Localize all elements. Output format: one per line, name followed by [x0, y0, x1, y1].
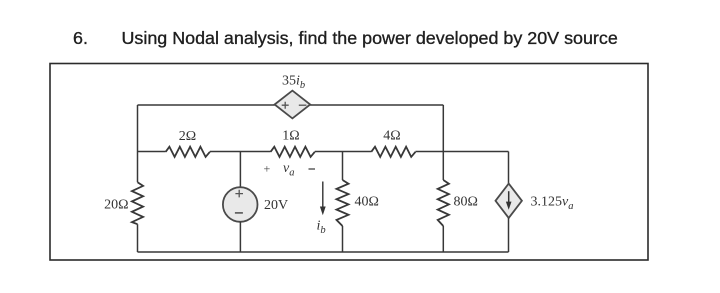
voltage source V1 20V circle: [223, 187, 258, 222]
wire 80ohm branch bottom: [442, 226, 444, 252]
wire 80ohm branch from top rail through mid rail: [442, 105, 444, 180]
wire top-left rail to dependent source U1: [138, 104, 275, 106]
minus sign of V1: [235, 212, 243, 214]
wire 40ohm branch bottom: [342, 226, 344, 252]
resistor R4 4ohm: [371, 147, 415, 157]
wire right branch bottom: [508, 218, 510, 252]
svg-text:2Ω: 2Ω: [179, 129, 196, 144]
wire dependent source U1 to right top corner: [310, 104, 443, 106]
dependent current source U2 (3.125va) diamond: [496, 184, 522, 218]
wire mid rail segment b: [210, 151, 271, 153]
plus sign of V1: [235, 190, 243, 198]
plus sign of U1: [282, 102, 289, 109]
svg-text:ib: ib: [317, 219, 326, 237]
wire right branch top: [508, 152, 510, 184]
wire left rail top segment: [137, 105, 139, 182]
minus sign of U1: [299, 104, 307, 106]
svg-text:3.125va: 3.125va: [531, 195, 574, 213]
resistor R3 1ohm: [271, 147, 315, 157]
resistor R2 2ohm: [166, 147, 210, 157]
wire mid rail segment d: [416, 151, 509, 153]
resistor R6 80ohm: [438, 180, 449, 226]
wire 20V branch top: [239, 152, 241, 188]
wire mid rail segment a: [138, 151, 166, 153]
wire 20V branch bottom: [239, 222, 241, 252]
svg-text:1Ω: 1Ω: [282, 129, 299, 144]
svg-text:va: va: [283, 161, 294, 179]
title sentence: [122, 28, 618, 49]
wire 40ohm branch top: [342, 152, 344, 181]
wire left rail bottom segment: [137, 224, 139, 252]
svg-text:20Ω: 20Ω: [104, 198, 128, 213]
resistor R5 40ohm: [337, 180, 349, 226]
dependent voltage source U1 (35ib) diamond: [275, 91, 311, 119]
svg-text:20V: 20V: [264, 198, 288, 213]
svg-text:+: +: [264, 162, 271, 176]
svg-text:35ib: 35ib: [282, 74, 305, 92]
arrow inside U2: [508, 191, 510, 203]
wire bottom rail: [138, 251, 509, 253]
resistor R1 20ohm: [132, 182, 143, 224]
label va polarity minus: [309, 168, 316, 170]
current arrow ib: [322, 182, 324, 209]
wire mid rail segment c: [315, 151, 372, 153]
svg-text:80Ω: 80Ω: [454, 195, 478, 210]
title text: [73, 28, 88, 49]
svg-text:4Ω: 4Ω: [383, 129, 400, 144]
border frame of figure: [50, 64, 648, 261]
svg-text:40Ω: 40Ω: [355, 195, 379, 210]
